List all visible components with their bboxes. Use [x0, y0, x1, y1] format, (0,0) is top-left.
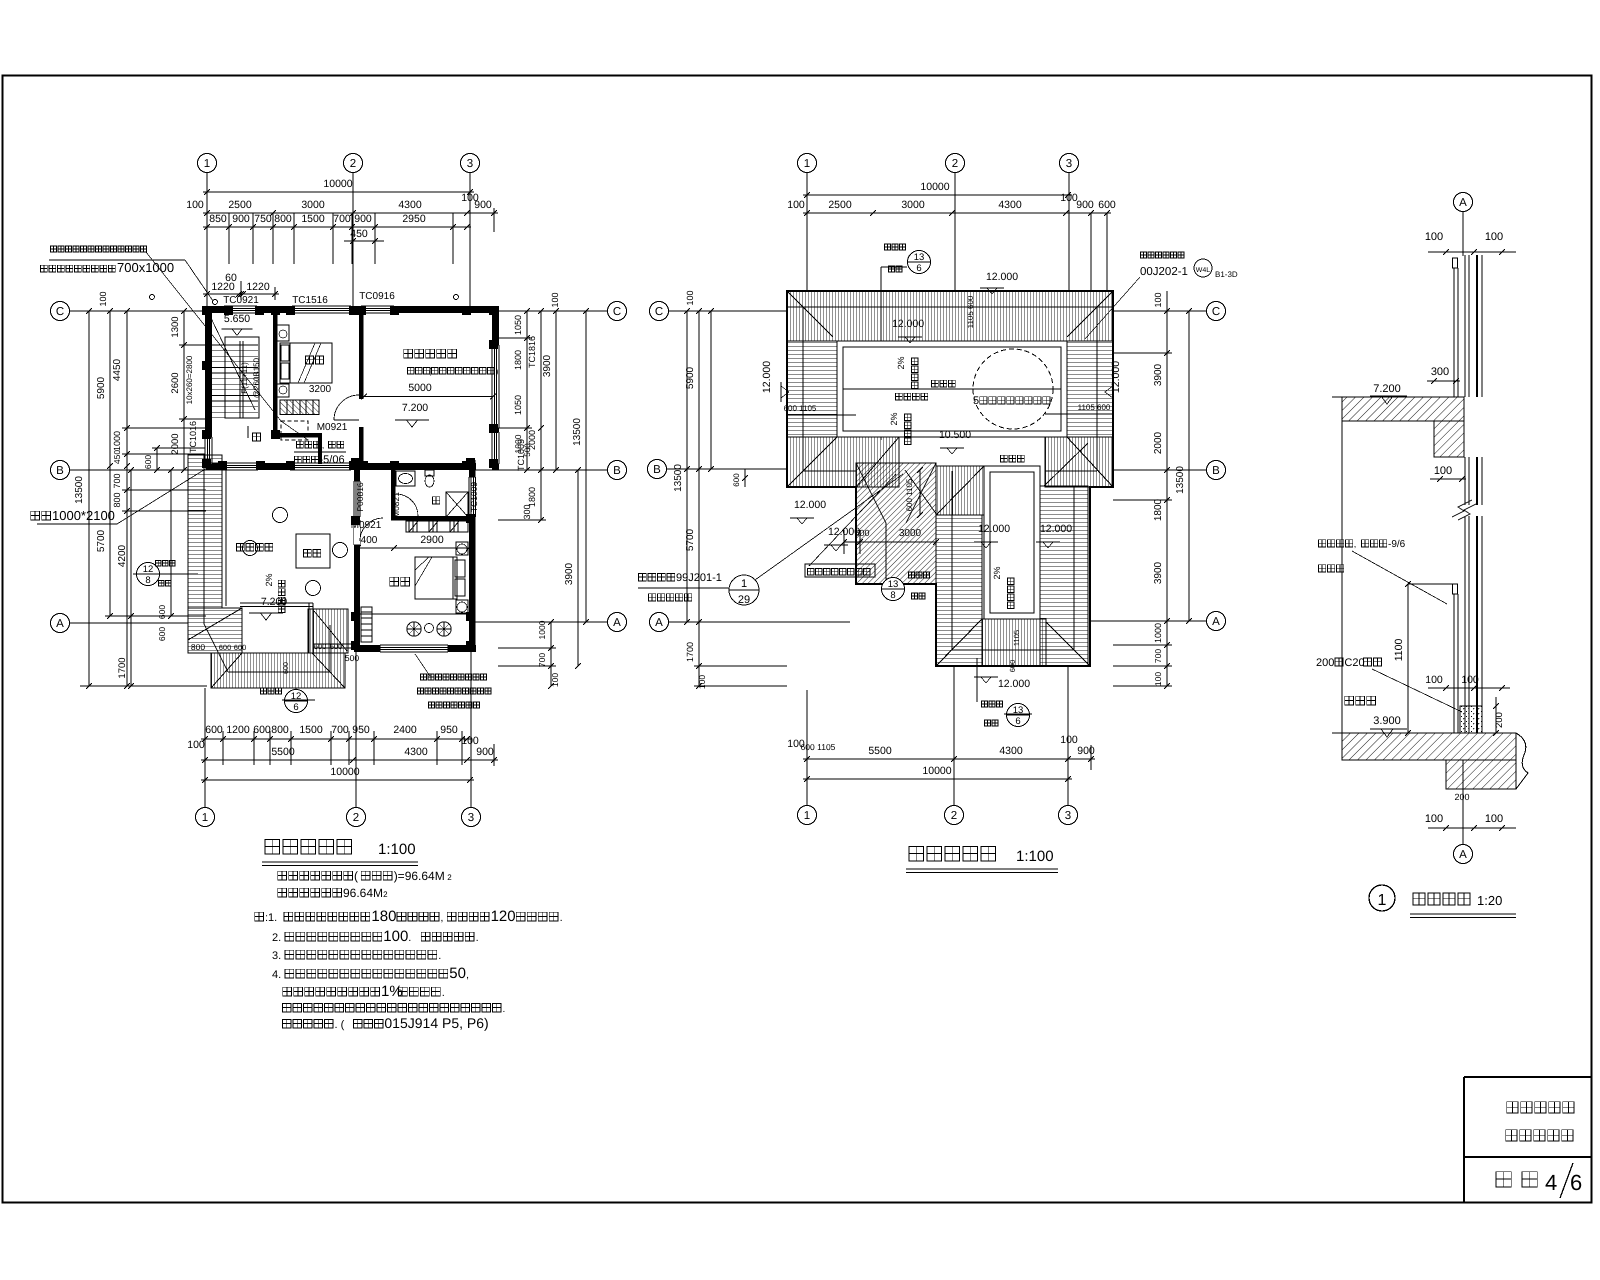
svg-text:12.000: 12.000	[794, 499, 826, 511]
svg-text:2500: 2500	[828, 199, 852, 211]
svg-text:13500: 13500	[74, 476, 85, 504]
svg-text:400: 400	[361, 535, 378, 546]
svg-text:12.000: 12.000	[998, 678, 1030, 690]
svg-text:100: 100	[550, 292, 560, 307]
svg-text:10.500: 10.500	[939, 429, 971, 441]
svg-text:4450: 4450	[112, 358, 123, 381]
svg-text:A: A	[613, 617, 621, 629]
svg-text:10000: 10000	[330, 766, 359, 778]
svg-text:B: B	[653, 464, 661, 476]
svg-text:5900: 5900	[685, 366, 696, 389]
svg-text:100: 100	[383, 928, 408, 945]
svg-text:600: 600	[854, 528, 869, 538]
svg-text:100: 100	[1060, 734, 1078, 746]
svg-text:1:20: 1:20	[1477, 893, 1502, 908]
svg-text:4300: 4300	[999, 745, 1023, 757]
svg-text:1105 600: 1105 600	[1078, 403, 1111, 412]
svg-text:600 1105: 600 1105	[784, 404, 817, 413]
svg-text:1500: 1500	[301, 213, 325, 225]
svg-text:500: 500	[345, 653, 359, 663]
svg-text:P00816: P00816	[355, 482, 365, 512]
svg-text:12.000: 12.000	[986, 271, 1018, 283]
svg-text:.: .	[476, 932, 479, 944]
svg-text:600: 600	[157, 605, 167, 619]
svg-text:450: 450	[350, 228, 368, 240]
svg-text:1000: 1000	[537, 620, 547, 639]
svg-text:700: 700	[331, 724, 349, 736]
svg-text:1:100: 1:100	[378, 841, 416, 858]
svg-text:200: 200	[1316, 657, 1334, 669]
svg-text:700: 700	[1153, 649, 1163, 663]
svg-text:200: 200	[1454, 792, 1469, 802]
svg-text:3900: 3900	[1153, 561, 1164, 584]
svg-text:4300: 4300	[404, 746, 428, 758]
svg-text:1000: 1000	[112, 431, 122, 451]
svg-text:2: 2	[350, 158, 356, 170]
svg-text:)=96.64M: )=96.64M	[394, 869, 445, 883]
svg-text:600 1105: 600 1105	[905, 478, 914, 511]
svg-text:3.900: 3.900	[1373, 715, 1401, 727]
svg-text:3900: 3900	[542, 354, 553, 377]
svg-text:3: 3	[1065, 810, 1071, 822]
svg-text:,: ,	[466, 969, 469, 981]
svg-text:2: 2	[951, 810, 957, 822]
svg-text:015J914 P5, P6): 015J914 P5, P6)	[384, 1015, 488, 1031]
svg-text:4.: 4.	[272, 969, 281, 981]
svg-text:1300: 1300	[170, 316, 181, 337]
svg-text:1: 1	[202, 812, 208, 824]
svg-text:100: 100	[685, 290, 695, 305]
svg-text:B: B	[56, 465, 64, 477]
svg-text:13500: 13500	[1175, 466, 1186, 494]
svg-text:12.000: 12.000	[1110, 361, 1122, 393]
svg-text:800: 800	[112, 492, 122, 507]
svg-text:): )	[496, 367, 499, 376]
svg-text:10x260=2800: 10x260=2800	[185, 355, 194, 404]
svg-text:2%: 2%	[264, 573, 274, 586]
svg-text:.: .	[503, 1004, 506, 1015]
svg-text:2400: 2400	[393, 724, 417, 736]
svg-text:. (: . (	[335, 1019, 345, 1031]
svg-text:1: 1	[741, 578, 747, 590]
svg-text:6: 6	[1015, 716, 1020, 727]
svg-text:2500: 2500	[228, 199, 252, 211]
svg-text:-5/06: -5/06	[320, 454, 345, 466]
svg-text:1: 1	[804, 158, 810, 170]
svg-text:W4L: W4L	[1196, 267, 1211, 274]
svg-text:12.000: 12.000	[1040, 523, 1072, 535]
svg-text:TC0916: TC0916	[359, 291, 395, 302]
svg-text:2000: 2000	[170, 433, 181, 454]
svg-text:3000: 3000	[301, 199, 325, 211]
svg-text:600: 600	[1098, 199, 1116, 211]
svg-text:4200: 4200	[117, 544, 128, 567]
svg-text:7.200: 7.200	[1373, 383, 1401, 395]
svg-text:1500: 1500	[299, 724, 323, 736]
svg-text:1000*2100: 1000*2100	[52, 508, 115, 523]
svg-text:1800: 1800	[513, 350, 523, 370]
svg-text:.: .	[442, 987, 445, 999]
svg-text:1105: 1105	[1012, 630, 1021, 646]
svg-text:500: 500	[523, 443, 532, 457]
svg-text:5500: 5500	[271, 746, 295, 758]
svg-text:.: .	[560, 912, 563, 924]
svg-text:100: 100	[1485, 813, 1503, 825]
svg-text:3900: 3900	[564, 562, 575, 585]
svg-text:600: 600	[205, 724, 223, 736]
svg-text:600: 600	[314, 642, 327, 651]
svg-text:-9/6: -9/6	[1388, 539, 1406, 550]
svg-text:300: 300	[1431, 366, 1449, 378]
svg-text:C: C	[56, 306, 64, 318]
svg-text:F(11+11): F(11+11)	[240, 362, 249, 394]
svg-text:600: 600	[219, 643, 232, 652]
svg-text:2: 2	[383, 890, 388, 899]
svg-text:3200: 3200	[309, 384, 332, 395]
svg-text:13: 13	[914, 252, 925, 263]
svg-text:5900: 5900	[96, 376, 107, 399]
svg-text:7.200: 7.200	[261, 596, 287, 608]
svg-text:1220: 1220	[246, 281, 270, 293]
svg-text:700: 700	[333, 213, 351, 225]
svg-text:1050: 1050	[513, 395, 523, 415]
svg-text:29: 29	[738, 594, 750, 606]
svg-text:6: 6	[293, 702, 298, 713]
svg-text:100: 100	[98, 291, 108, 306]
svg-text:600: 600	[1008, 660, 1017, 673]
svg-text:(: (	[354, 869, 358, 883]
svg-text:3.: 3.	[272, 950, 281, 962]
svg-text:800: 800	[191, 642, 205, 652]
svg-text:100: 100	[186, 199, 204, 211]
svg-text:@260B150: @260B150	[252, 357, 261, 398]
svg-text::1.: :1.	[265, 912, 277, 924]
svg-text:4300: 4300	[998, 199, 1022, 211]
svg-text:600: 600	[253, 724, 271, 736]
svg-text:M0821: M0821	[391, 492, 401, 518]
svg-text:1700: 1700	[685, 642, 695, 662]
svg-text:4: 4	[1545, 1170, 1557, 1195]
svg-text:1200: 1200	[226, 724, 250, 736]
svg-text:600 1105: 600 1105	[801, 742, 836, 752]
svg-text:100: 100	[187, 739, 205, 751]
svg-text:800: 800	[274, 213, 292, 225]
svg-text:5.650: 5.650	[224, 313, 250, 325]
svg-text:600: 600	[330, 642, 343, 651]
svg-text:100: 100	[1434, 465, 1452, 477]
svg-text:A: A	[1459, 197, 1467, 209]
svg-text:10000: 10000	[323, 178, 352, 190]
svg-text:TC1009: TC1009	[469, 482, 479, 513]
svg-text:1050: 1050	[513, 315, 523, 335]
svg-text:TC1516: TC1516	[292, 295, 328, 306]
svg-text:3: 3	[468, 812, 474, 824]
svg-text:600: 600	[157, 627, 167, 641]
svg-text:100: 100	[787, 738, 805, 750]
svg-text:2%: 2%	[896, 356, 906, 369]
svg-text:700x1000: 700x1000	[117, 260, 174, 275]
svg-text:600: 600	[283, 662, 290, 674]
svg-text:8: 8	[145, 575, 150, 586]
svg-text:5700: 5700	[685, 528, 696, 551]
svg-text:5700: 5700	[96, 529, 107, 552]
svg-text:120: 120	[491, 908, 516, 925]
svg-text:100: 100	[1461, 674, 1479, 686]
svg-text:1000: 1000	[1153, 623, 1163, 643]
svg-text:2: 2	[447, 873, 452, 882]
svg-text:1700: 1700	[117, 657, 128, 678]
svg-text:600: 600	[143, 455, 153, 469]
svg-text:200: 200	[1494, 712, 1505, 728]
svg-text:6: 6	[916, 263, 921, 274]
svg-text:750: 750	[254, 213, 272, 225]
svg-text:10000: 10000	[922, 765, 951, 777]
svg-text:6: 6	[1570, 1170, 1582, 1195]
svg-text:450: 450	[112, 450, 122, 464]
svg-text:96.64M: 96.64M	[343, 886, 383, 900]
svg-text:A: A	[1212, 616, 1220, 628]
svg-text:B: B	[613, 465, 621, 477]
svg-text:5500: 5500	[868, 745, 892, 757]
svg-text:5000: 5000	[408, 382, 432, 394]
svg-text:100: 100	[1425, 813, 1443, 825]
svg-text:2900: 2900	[420, 534, 444, 546]
svg-text:180: 180	[371, 908, 396, 925]
svg-text:C: C	[1212, 306, 1220, 318]
svg-text:100: 100	[1153, 292, 1163, 307]
svg-text:1: 1	[1378, 892, 1387, 909]
svg-text:13500: 13500	[572, 418, 583, 446]
svg-text:3000: 3000	[899, 528, 922, 539]
svg-text:1100: 1100	[1393, 639, 1405, 662]
svg-text:100: 100	[1425, 674, 1443, 686]
svg-text:2950: 2950	[402, 213, 426, 225]
svg-text:950: 950	[440, 724, 458, 736]
svg-text:2%: 2%	[992, 566, 1002, 579]
svg-text:A: A	[1459, 849, 1467, 861]
svg-text:900: 900	[1076, 199, 1094, 211]
svg-text:1: 1	[204, 158, 210, 170]
svg-text:50: 50	[449, 965, 466, 982]
svg-text:12.000: 12.000	[978, 523, 1010, 535]
svg-text:700: 700	[112, 473, 122, 488]
svg-text:5: 5	[973, 395, 979, 407]
svg-text:,: ,	[1354, 539, 1357, 549]
svg-text:4300: 4300	[398, 199, 422, 211]
svg-text:TC0921: TC0921	[223, 295, 259, 306]
svg-text:600: 600	[732, 473, 741, 487]
svg-text:1800: 1800	[527, 487, 537, 507]
svg-text:300: 300	[522, 504, 532, 519]
svg-text:B: B	[1212, 465, 1220, 477]
svg-text:850: 850	[209, 213, 227, 225]
svg-text:3: 3	[467, 158, 473, 170]
svg-text:TC1816: TC1816	[527, 336, 537, 368]
svg-text:1800: 1800	[1153, 498, 1164, 521]
svg-text:A: A	[655, 617, 663, 629]
svg-text:1105 600: 1105 600	[966, 295, 975, 328]
svg-text:10000: 10000	[920, 181, 949, 193]
svg-text:700: 700	[537, 653, 547, 667]
svg-text:100: 100	[550, 673, 560, 687]
svg-text:,: ,	[322, 440, 324, 450]
svg-text:2.: 2.	[272, 932, 281, 944]
svg-text:100: 100	[1425, 231, 1443, 243]
svg-text:B1-3D: B1-3D	[1215, 270, 1238, 279]
svg-text:12: 12	[143, 564, 154, 575]
svg-text:12.000: 12.000	[761, 361, 773, 393]
svg-text:8: 8	[890, 590, 895, 601]
svg-text:900: 900	[474, 199, 492, 211]
svg-text:800: 800	[271, 724, 289, 736]
svg-text:.: .	[408, 932, 411, 944]
svg-text:900: 900	[1077, 745, 1095, 757]
svg-text:100: 100	[1485, 231, 1503, 243]
svg-text:13500: 13500	[673, 464, 684, 492]
svg-text:3000: 3000	[901, 199, 925, 211]
svg-text:2000: 2000	[1153, 431, 1164, 454]
svg-text:100: 100	[787, 199, 805, 211]
svg-text:1: 1	[804, 810, 810, 822]
svg-text:2%: 2%	[889, 412, 899, 425]
svg-text:C: C	[613, 306, 621, 318]
svg-text:3: 3	[1066, 158, 1072, 170]
svg-text:.: .	[438, 950, 441, 962]
svg-text:900: 900	[476, 746, 494, 758]
svg-text:12.000: 12.000	[892, 318, 924, 330]
svg-text:00J202-1: 00J202-1	[1140, 266, 1188, 278]
svg-text:950: 950	[352, 724, 370, 736]
svg-text:1:100: 1:100	[1016, 848, 1054, 865]
svg-text:A: A	[56, 618, 64, 630]
svg-text:13: 13	[888, 579, 899, 590]
svg-text:600: 600	[234, 643, 247, 652]
svg-text:3900: 3900	[1153, 363, 1164, 386]
svg-text:C20: C20	[1344, 657, 1364, 669]
svg-text:M0921: M0921	[317, 422, 348, 433]
svg-text:100: 100	[697, 675, 707, 689]
svg-text:100: 100	[1153, 672, 1163, 686]
svg-text:2: 2	[952, 158, 958, 170]
svg-text:C: C	[655, 306, 663, 318]
svg-text:900: 900	[232, 213, 250, 225]
svg-text:7.200: 7.200	[402, 402, 428, 414]
svg-text:60: 60	[225, 272, 237, 284]
svg-text:2: 2	[353, 812, 359, 824]
svg-text:,: ,	[440, 912, 443, 924]
svg-text:2600: 2600	[170, 372, 181, 393]
svg-text:900: 900	[354, 213, 372, 225]
